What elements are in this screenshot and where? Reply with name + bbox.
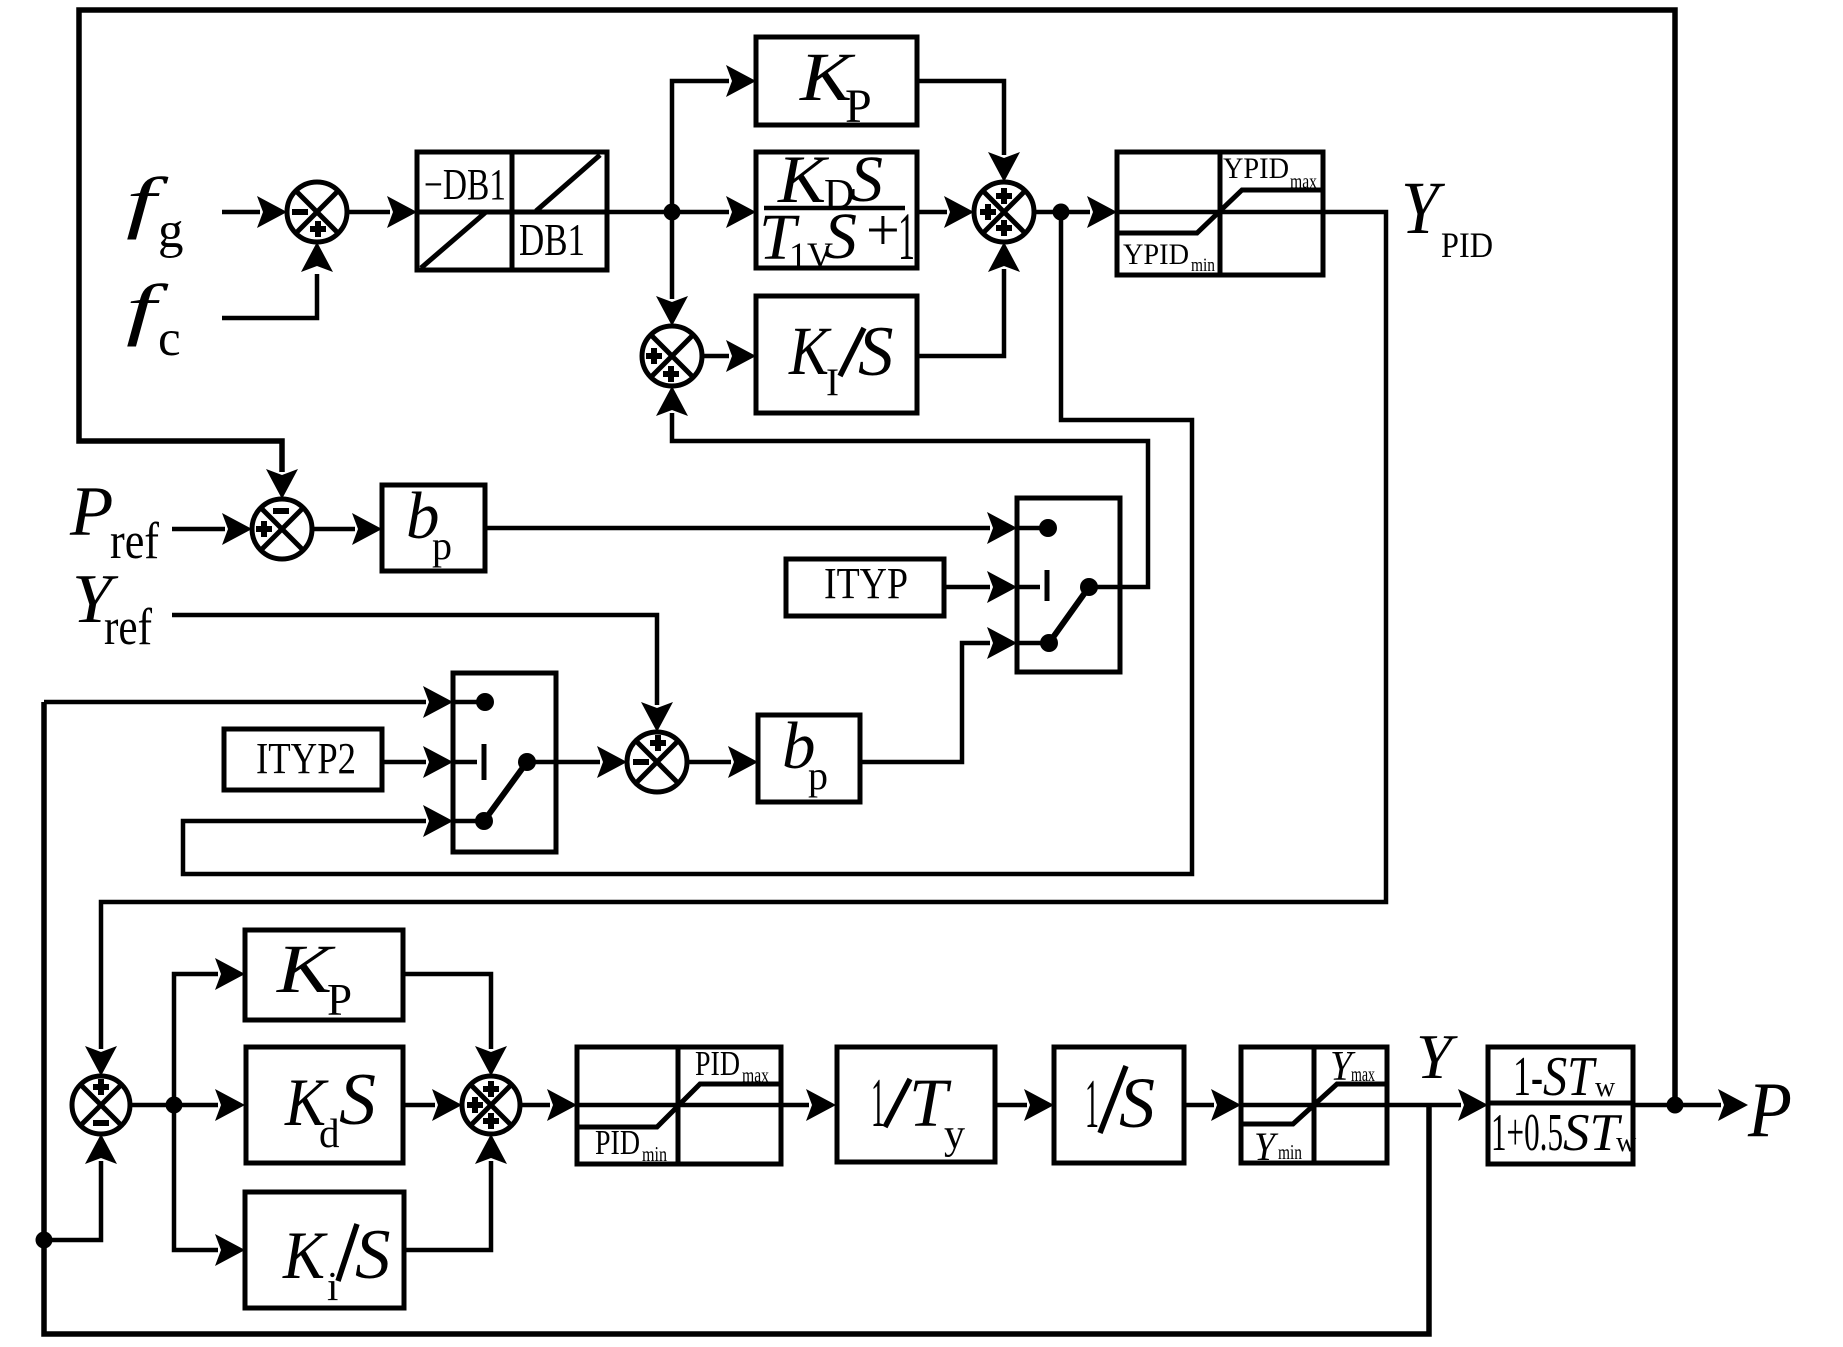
limiter PID axis line	[577, 1103, 781, 1108]
limiter block YPID frame	[1117, 152, 1323, 275]
svg-text:i: i	[327, 1263, 338, 1309]
node N3	[166, 1097, 183, 1114]
block ITYP2	[224, 729, 382, 790]
label 1/Ty slash	[885, 1079, 910, 1127]
limiter Y axis line	[1241, 1103, 1387, 1108]
svg-text:w: w	[1595, 1072, 1616, 1103]
switch SW1 (ITYP selector) frame	[1017, 498, 1120, 672]
svg-text:y: y	[944, 1112, 965, 1158]
wire Kd output to summer S7	[404, 1103, 435, 1108]
wire summer S6 to droop block bp2	[687, 760, 731, 765]
deadband block diagonal upper-right	[536, 155, 600, 211]
node N2	[1053, 204, 1070, 221]
svg-text:K: K	[282, 1217, 328, 1293]
block bp1 (permanent droop)	[382, 485, 485, 571]
svg-text:YPID: YPID	[1123, 238, 1189, 271]
wire bp1 output to ITYP switch upper input	[485, 526, 990, 531]
wire S1 to deadband block	[347, 210, 390, 215]
wire f_g input to summer S1	[222, 210, 260, 215]
wire summer S5 to droop block bp1	[312, 527, 355, 532]
svg-text:min: min	[1278, 1140, 1302, 1164]
svg-text:PID: PID	[595, 1123, 640, 1162]
wire turbine output to node N4 to P output	[1633, 1103, 1721, 1108]
wire Y feedback: tap on Y line down, across bottom, up left rail	[44, 702, 1429, 1334]
summer S1 (f_g - f_c)	[287, 182, 347, 242]
summer S5 (P_ref - P)	[252, 499, 312, 559]
wire P_ref input to summer S5	[172, 527, 225, 532]
wire ITYP2 block to ITYP2 switch control input	[383, 760, 426, 765]
svg-text:1-: 1-	[1513, 1046, 1543, 1108]
svg-text:ref: ref	[104, 599, 153, 656]
svg-text:Y: Y	[1254, 1124, 1279, 1169]
wire P output feedback loop: node P up, across top, down left side into Pref summer	[79, 10, 1675, 1105]
switch SW2 lower contact	[453, 819, 478, 824]
wire summer S3 to node N2 to YPID limiter	[1034, 210, 1090, 215]
fraction bar	[764, 206, 905, 211]
summer S7 (servo PID sum)	[462, 1076, 520, 1134]
svg-text:P: P	[845, 80, 872, 133]
svg-text:ref: ref	[110, 513, 160, 570]
switch SW2 lever	[484, 762, 527, 821]
label K_I/S slash	[840, 328, 864, 376]
wire PID limiter to 1/Ty block	[781, 1103, 809, 1108]
block K_P2 (servo)	[245, 930, 403, 1020]
svg-text:1: 1	[871, 1065, 885, 1142]
wire K_D output to summer S3	[917, 210, 947, 215]
limiter block Y frame	[1241, 1047, 1387, 1163]
switch SW2 upper contact	[453, 700, 479, 705]
svg-text:YPID: YPID	[1223, 152, 1289, 185]
svg-text:P: P	[69, 473, 113, 551]
wire summer S4 to node N3 to Kd block	[130, 1103, 218, 1108]
svg-text:max: max	[742, 1063, 769, 1087]
deadband block dividers	[510, 152, 515, 270]
summer S6 (Y_ref - switch)	[627, 732, 687, 792]
svg-text:ST: ST	[1543, 1046, 1597, 1108]
deadband block DB1 frame	[417, 152, 607, 270]
limiter PID divider	[676, 1047, 681, 1164]
svg-text:S: S	[355, 1216, 391, 1294]
wire YPID limiter output to Y_PID and feedback down-left into servo summer S4	[101, 212, 1386, 1049]
svg-text:g: g	[158, 203, 184, 259]
svg-text:PID: PID	[695, 1044, 740, 1083]
wire f_c input up into summer S1	[222, 274, 317, 318]
svg-text:S: S	[339, 1059, 376, 1141]
switch SW2 (ITYP2 selector) frame	[453, 673, 556, 852]
label K_i/S slash	[338, 1224, 357, 1281]
block K_i/S (servo)	[245, 1192, 404, 1308]
svg-text:w: w	[1616, 1127, 1637, 1158]
wire bp2 output up to ITYP switch lower input	[860, 643, 990, 762]
switch SW1 lever	[1049, 587, 1089, 643]
wire ITYP block to ITYP switch control input	[944, 585, 990, 590]
block K_D S/(T_1V S+1)	[756, 152, 917, 268]
wire deadband to node N1 to K_D block	[607, 210, 729, 215]
svg-text:p: p	[432, 523, 452, 568]
block 1/S	[1054, 1047, 1184, 1163]
svg-text:−DB1: −DB1	[424, 160, 506, 209]
label 1/S slash	[1100, 1066, 1126, 1133]
svg-text:1+0.5: 1+0.5	[1491, 1104, 1563, 1162]
svg-text:max: max	[1351, 1062, 1375, 1086]
limiter PID saturation curve	[577, 1084, 781, 1127]
block K_I/S	[756, 296, 917, 413]
svg-text:ITYP2: ITYP2	[256, 734, 356, 783]
wire node N3 down to Ki block	[174, 1105, 218, 1250]
block ITYP	[786, 559, 944, 616]
node N5 on left rail	[36, 1232, 53, 1249]
node N1	[664, 204, 681, 221]
svg-text:S: S	[824, 200, 857, 273]
switch SW2 control terminal	[453, 760, 477, 765]
summer S4 (servo error)	[72, 1076, 130, 1134]
switch SW1 control terminal	[1017, 585, 1040, 590]
summer S2 (integral input)	[642, 326, 702, 386]
limiter YPID saturation curve	[1117, 190, 1323, 233]
svg-text:ITYP: ITYP	[824, 559, 908, 608]
wire node N2 down and around to ITYP2 switch lower input	[183, 212, 1192, 874]
svg-text:Y: Y	[1401, 167, 1446, 250]
limiter YPID divider	[1218, 152, 1223, 275]
svg-text:Y: Y	[1416, 1022, 1458, 1092]
wire summer S7 to PID limiter	[520, 1103, 550, 1108]
wire K_I output up to summer S3	[917, 269, 1004, 356]
svg-text:min: min	[1191, 255, 1215, 276]
block K_d S (servo)	[246, 1047, 403, 1163]
limiter Y divider	[1312, 1047, 1317, 1163]
wire ITYP2 switch output to summer S6	[527, 760, 600, 765]
node N4 on P output line	[1667, 1097, 1684, 1114]
wire Y feedback left rail to ITYP2 switch upper input	[44, 700, 426, 705]
block 1/T_y	[837, 1047, 995, 1162]
svg-text:PID: PID	[1441, 225, 1493, 265]
wire Ki output up to summer S7	[404, 1161, 491, 1250]
block bp2 (permanent droop 2)	[758, 715, 860, 802]
svg-text:min: min	[642, 1142, 667, 1166]
block water turbine 1-STw/1+0.5STw	[1488, 1047, 1633, 1164]
svg-text:P: P	[327, 975, 352, 1025]
wire node N3 up to K_P2 block	[174, 974, 218, 1105]
svg-text:S: S	[858, 313, 894, 391]
svg-text:d: d	[319, 1110, 340, 1156]
turbine fraction bar	[1488, 1101, 1633, 1106]
wire ITYP switch output feedback to summer S2 lower input	[672, 413, 1148, 587]
switch SW1 lower contact	[1017, 641, 1043, 646]
svg-text:c: c	[158, 311, 181, 367]
wire K_P2 output down to summer S7	[404, 974, 491, 1049]
wire Y_ref input down into summer S6	[172, 615, 657, 705]
wire node N1 down to summer S2	[670, 212, 675, 299]
wire node N1 up to K_P block	[672, 81, 729, 212]
block K_P (frequency PID)	[756, 37, 917, 125]
svg-text:P: P	[1747, 1066, 1792, 1153]
svg-text:DB1: DB1	[519, 215, 585, 265]
wire K_P output to summer S3	[917, 81, 1004, 155]
limiter YPID axis line	[1117, 210, 1323, 215]
svg-text:+: +	[866, 197, 900, 263]
svg-text:1: 1	[898, 198, 915, 274]
deadband block diagonal lower-left	[421, 212, 486, 268]
wire summer S2 to K_I block	[701, 354, 729, 359]
svg-text:I: I	[826, 361, 839, 404]
wire node N5 to summer S4 lower input	[44, 1161, 101, 1240]
summer S3 (PID sum)	[974, 182, 1034, 242]
svg-text:ST: ST	[1563, 1104, 1623, 1162]
svg-text:p: p	[808, 753, 828, 798]
svg-text:max: max	[1290, 171, 1317, 193]
wire 1/Ty block to 1/S block	[997, 1103, 1027, 1108]
wire 1/S block to Y limiter	[1184, 1103, 1214, 1108]
limiter block PID frame	[577, 1047, 781, 1164]
wire Y limiter to water turbine block	[1387, 1103, 1461, 1108]
svg-text:1: 1	[1085, 1066, 1099, 1143]
limiter Y saturation curve	[1241, 1084, 1387, 1124]
switch SW1 upper contact	[1017, 526, 1042, 531]
